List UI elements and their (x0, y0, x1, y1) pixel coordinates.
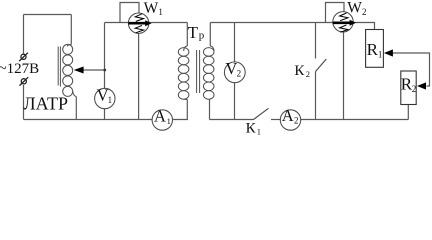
wire Tp primary bottom lead (173, 100, 188, 120)
switch K1 blade (254, 108, 269, 119)
wire K1 to A2 (271, 119, 280, 121)
wire primary bottom horizontal (24, 119, 153, 121)
wire Tp primary top lead (186, 23, 188, 47)
wire primary top left segment (105, 22, 129, 24)
svg-text:W: W (347, 0, 362, 17)
svg-text:~127В: ~127В (0, 61, 39, 77)
wire down to LATR top (70, 15, 72, 45)
svg-text:W: W (144, 0, 159, 17)
LATR core (58, 47, 60, 87)
wattmeter W1 (128, 13, 151, 33)
svg-text:А: А (282, 106, 294, 125)
wire A2 to R2 bottom corner (301, 119, 409, 121)
wire Tp secondary top lead (209, 23, 211, 47)
ammeter A2 (280, 106, 300, 130)
wire V2 branch lower (234, 83, 236, 120)
voltmeter V1 (95, 86, 115, 109)
wire LATR wiper to node (82, 69, 105, 71)
wire Tp secondary bottom lead (209, 100, 211, 120)
wire V1 branch upper (104, 23, 106, 89)
wire primary top right segment (149, 22, 188, 24)
wire secondary top horizontal (210, 22, 333, 24)
resistor R1 (366, 30, 384, 68)
svg-text:V: V (225, 59, 237, 78)
svg-text:Т: Т (188, 23, 199, 42)
wattmeter W2 (333, 12, 356, 33)
svg-text:2: 2 (362, 7, 367, 17)
wire secondary top after W2 (353, 23, 375, 30)
svg-text:1: 1 (167, 116, 171, 126)
wire V2 branch upper (234, 23, 236, 63)
wire R1 wiper link (392, 53, 430, 86)
svg-text:ЛАТР: ЛАТР (23, 94, 68, 114)
wire W2 bottom voltage lead (343, 32, 345, 120)
svg-text:1: 1 (257, 127, 261, 137)
transformer Tp core (197, 50, 200, 93)
ammeter A1 (152, 106, 172, 130)
resistor R2 (401, 71, 416, 105)
transformer Tp primary coil (178, 46, 189, 100)
wire W2 voltage loop (326, 3, 345, 23)
svg-text:1: 1 (108, 95, 113, 105)
wire V1 branch lower (104, 109, 106, 120)
svg-text:1: 1 (378, 49, 383, 59)
svg-text:R: R (367, 40, 379, 59)
voltmeter V2 (224, 59, 245, 83)
wire LATR bottom lead (75, 97, 77, 120)
wire source top horizontal (24, 14, 72, 16)
LATR wiper arrowhead (74, 67, 84, 74)
terminal top (plug symbol) (19, 53, 28, 61)
resistor R2 wiper arrowhead (417, 82, 426, 89)
autotransformer LATR coil (63, 44, 77, 96)
svg-text:2: 2 (294, 115, 299, 125)
resistor R1 wiper arrowhead (384, 49, 393, 56)
wire W1 bottom voltage lead (138, 33, 140, 119)
svg-text:2: 2 (306, 69, 310, 79)
wire K2 branch lower (315, 72, 317, 120)
svg-text:2: 2 (412, 84, 417, 94)
terminal bottom (plug symbol) (20, 77, 29, 85)
node wiper junction (103, 69, 106, 72)
wire R2 bottom lead (407, 105, 409, 120)
svg-text:2: 2 (237, 68, 242, 78)
svg-text:К: К (246, 121, 257, 137)
wire W1 voltage loop (120, 3, 139, 23)
wire source bottom vertical (23, 85, 25, 120)
transformer Tp secondary coil (203, 46, 214, 100)
svg-text:р: р (199, 30, 205, 42)
wire K2 branch upper (315, 23, 317, 59)
svg-text:А: А (154, 106, 166, 125)
svg-text:К: К (294, 63, 305, 79)
switch K2 blade (316, 59, 327, 72)
svg-text:1: 1 (158, 7, 163, 17)
wire secondary bottom to K1 (210, 119, 254, 121)
wire source top vertical (23, 15, 25, 54)
